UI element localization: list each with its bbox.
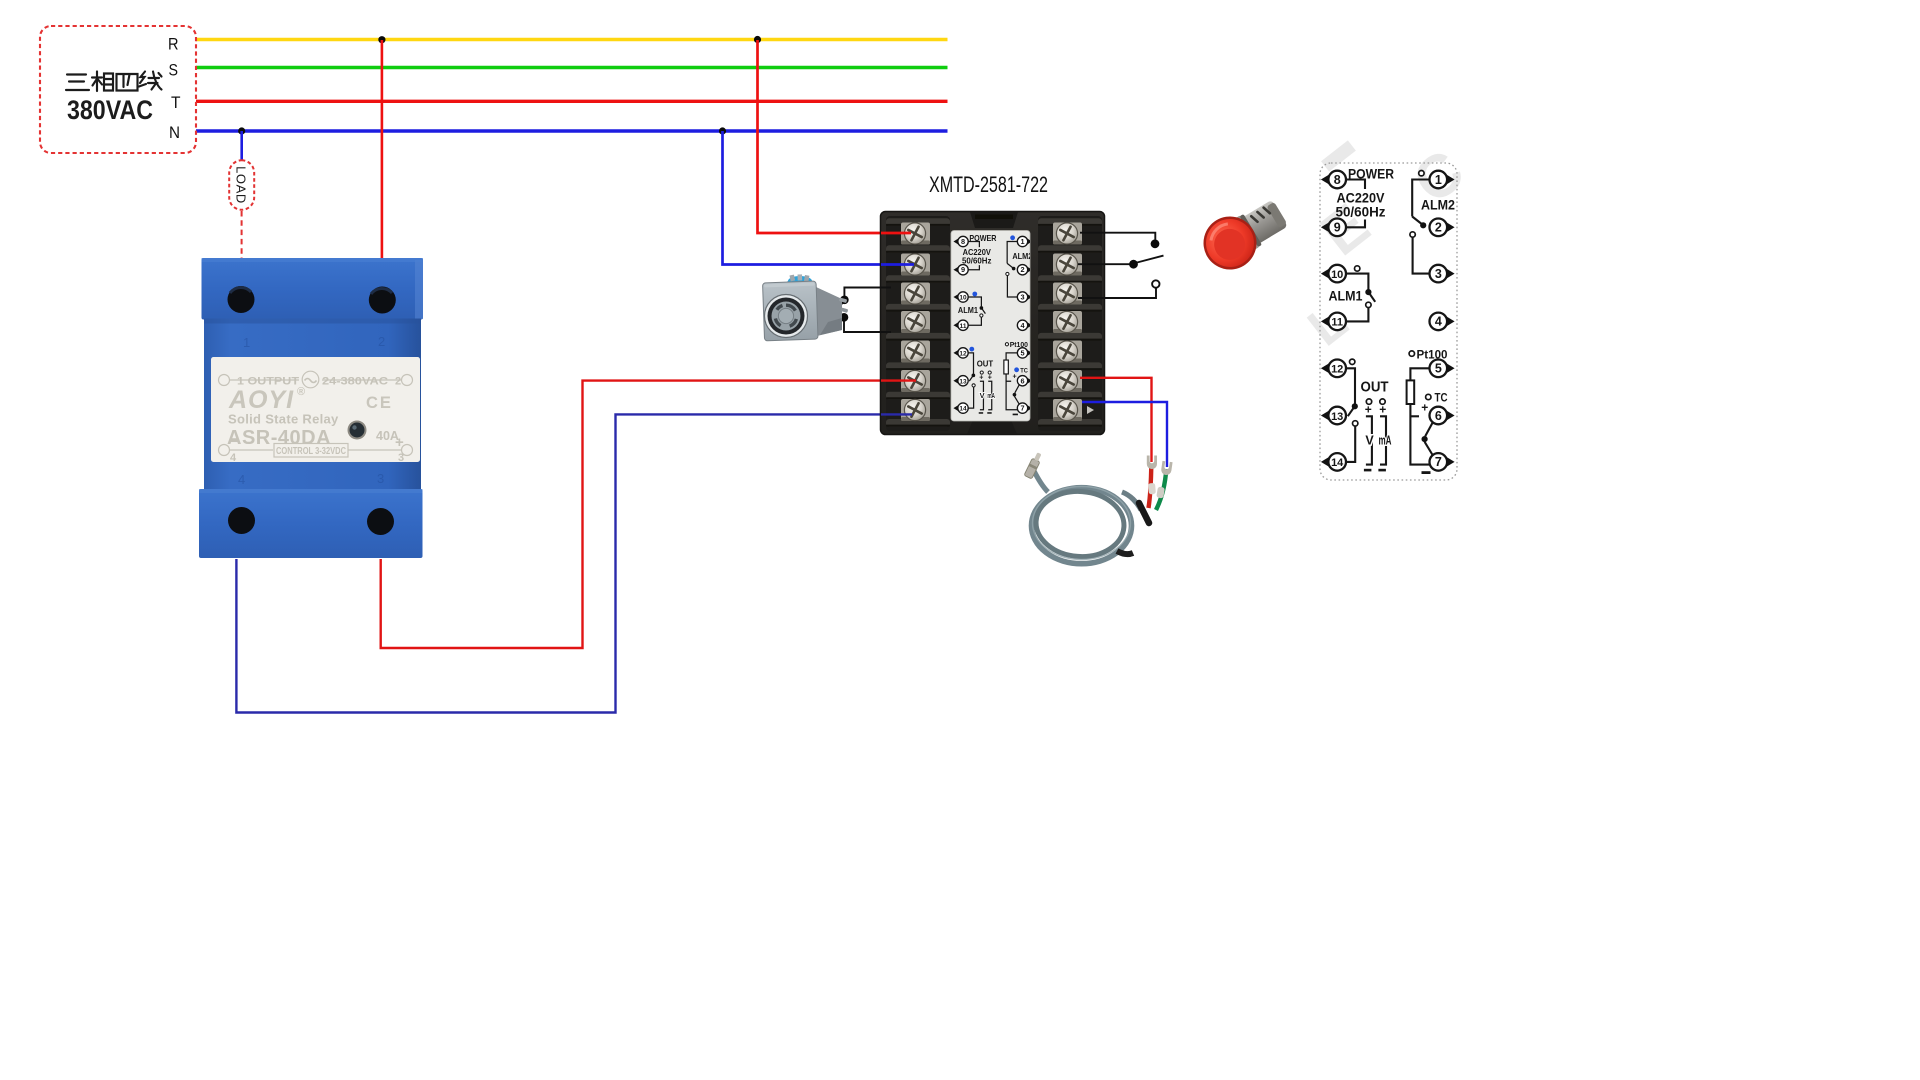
svg-text:T: T bbox=[171, 93, 181, 112]
wire dashed red LOAD to SSR bbox=[241, 211, 243, 259]
svg-text:4: 4 bbox=[238, 472, 245, 487]
thermocouple green lead bbox=[1156, 469, 1166, 510]
wire red SSR 3 to controller 13 bbox=[381, 381, 911, 648]
wire T phase red bbox=[180, 100, 948, 103]
controller left terminal recess bbox=[886, 216, 950, 431]
junction on N at x722 bbox=[719, 127, 726, 134]
SSR bottom flange bbox=[199, 489, 423, 558]
pinout panel background bbox=[1320, 163, 1457, 480]
wire red tip into controller terminal 8 bbox=[881, 232, 911, 235]
controller left terminal strip bbox=[886, 218, 950, 426]
SSR mounting hole top-right bbox=[369, 287, 396, 314]
svg-text:4: 4 bbox=[230, 452, 237, 464]
SSR white label bbox=[211, 357, 420, 462]
thermocouple red lead bbox=[1149, 464, 1152, 508]
wire black controller 1 to lamp switch bbox=[1080, 233, 1155, 240]
red fork terminal bbox=[1147, 456, 1157, 470]
pinout schematic full size bbox=[1321, 167, 1455, 475]
wire red tip from controller terminal 6 bbox=[1080, 377, 1106, 379]
LOAD dashed capsule bbox=[229, 160, 254, 210]
junction on R at x382 bbox=[378, 36, 385, 43]
wire black controller 10 to pot switch bbox=[844, 288, 891, 297]
wire blue controller 7 to thermocouple green lead bbox=[1087, 402, 1167, 467]
thermocouple probe tip bbox=[1024, 451, 1043, 479]
lamp switch SW2 bbox=[1129, 239, 1163, 287]
svg-text:1: 1 bbox=[243, 335, 250, 350]
controller right terminal recess bbox=[1038, 216, 1102, 431]
controller bottom clip bbox=[967, 420, 1017, 434]
svg-text:2: 2 bbox=[378, 334, 385, 349]
controller right terminal strip bbox=[1038, 218, 1102, 426]
svg-text:+: + bbox=[395, 434, 404, 451]
wire blue drop from N to controller terminal 9 bbox=[723, 131, 908, 265]
watermark letters bbox=[1298, 137, 1476, 358]
svg-text:S: S bbox=[169, 61, 179, 80]
SSR mounting hole top-left bbox=[228, 286, 255, 313]
svg-text:R: R bbox=[168, 35, 179, 54]
wire N neutral blue bbox=[179, 129, 948, 132]
wire blue tip from controller terminal 7 bbox=[1082, 401, 1106, 403]
wire red drop from R to controller terminal 8 bbox=[758, 40, 899, 233]
SSR status LED bbox=[348, 421, 367, 440]
SSR mounting hole bottom-left bbox=[228, 507, 255, 534]
wire blue tip into controller terminal 14 bbox=[881, 413, 912, 415]
svg-text:AOYI: AOYI bbox=[228, 386, 294, 414]
svg-text:XMTD-2581-722: XMTD-2581-722 bbox=[929, 172, 1048, 197]
svg-text:®: ® bbox=[297, 386, 305, 398]
wire black controller 3 to lamp switch bbox=[1078, 288, 1156, 298]
svg-text:CONTROL 3-32VDC: CONTROL 3-32VDC bbox=[276, 445, 346, 457]
controller top clip bbox=[970, 212, 1018, 228]
controller corner mark bbox=[1087, 406, 1094, 414]
wire black controller 2 to lamp switch bbox=[1078, 263, 1130, 265]
wire S phase green bbox=[180, 66, 948, 69]
wire black controller 11 to pot switch bbox=[844, 321, 891, 332]
svg-text:380VAC: 380VAC bbox=[67, 95, 153, 125]
svg-text:2: 2 bbox=[395, 376, 401, 388]
svg-text:3: 3 bbox=[398, 452, 404, 464]
svg-text:−: − bbox=[229, 434, 238, 451]
wire blue SSR 4 to controller 14 bbox=[236, 414, 907, 712]
controller U1 rear body bbox=[881, 212, 1105, 435]
svg-text:LOAD: LOAD bbox=[234, 166, 249, 204]
SSR top flange bbox=[202, 258, 424, 320]
SSR body bbox=[204, 319, 421, 490]
svg-text:3: 3 bbox=[377, 471, 384, 486]
pinout panel dotted border bbox=[1320, 163, 1457, 480]
thermocouple black sleeve bbox=[1139, 503, 1149, 523]
green fork terminal bbox=[1161, 461, 1173, 476]
solid state relay SSR ASR-40DA bbox=[199, 258, 423, 558]
SSR mounting hole bottom-right bbox=[367, 508, 394, 535]
mini label blue LED dots bbox=[969, 235, 1019, 372]
svg-text:Solid State Relay: Solid State Relay bbox=[228, 412, 339, 427]
indicator lamp HL1 red bbox=[1194, 190, 1295, 279]
wire blue tip into controller terminal 9 bbox=[881, 263, 914, 266]
wire red tip into controller terminal 13 bbox=[881, 379, 916, 381]
potentiometer knob photo bbox=[763, 274, 849, 341]
wire blue drop from N to LOAD bbox=[240, 131, 243, 160]
svg-text:N: N bbox=[169, 123, 180, 142]
pot switch SW1 contacts bbox=[837, 296, 849, 322]
svg-text:CE: CE bbox=[366, 394, 393, 412]
wire red controller 6 to thermocouple red lead bbox=[1087, 378, 1152, 462]
thermocouple probe and coil bbox=[1024, 451, 1173, 563]
svg-text:24-380VAC: 24-380VAC bbox=[322, 376, 388, 388]
junction on R at x757 bbox=[754, 36, 761, 43]
wire red drop from R to SSR terminal 1 bbox=[381, 40, 384, 259]
junction on N at x242 bbox=[238, 127, 245, 134]
source box 三相四线 380VAC bbox=[40, 26, 196, 153]
wire R phase yellow bbox=[181, 38, 948, 41]
controller centre label panel bbox=[951, 231, 1030, 422]
